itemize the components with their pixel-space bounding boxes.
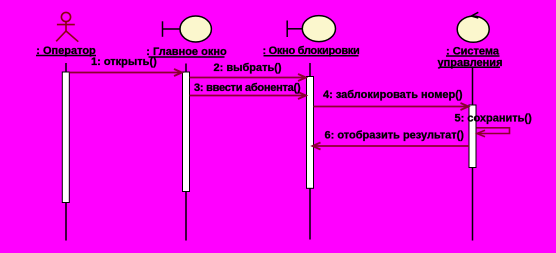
message 3 ввести абонента bbox=[190, 92, 307, 99]
lifeline Окно блокировки bbox=[309, 63, 311, 77]
activation bar Оператор bbox=[62, 72, 69, 203]
svg-text:1: открыть(): 1: открыть() bbox=[91, 56, 157, 68]
activation bar Система управления bbox=[469, 105, 476, 168]
svg-text:3: ввести абонента(): 3: ввести абонента() bbox=[194, 82, 301, 94]
message 5 сохранить self-call bbox=[476, 128, 509, 137]
lifeline Оператор bbox=[65, 63, 67, 72]
message 2 выбрать bbox=[190, 74, 307, 81]
message 1 открыть bbox=[69, 69, 182, 76]
boundary icon Главное окно bbox=[163, 16, 212, 42]
activation bar Главное окно bbox=[183, 72, 190, 192]
svg-text:2: выбрать(): 2: выбрать() bbox=[214, 62, 282, 74]
lifeline Главное окно bbox=[185, 64, 187, 73]
svg-text:6: отобразить результат(): 6: отобразить результат() bbox=[325, 130, 465, 142]
message 4 заблокировать номер bbox=[314, 103, 469, 110]
activation bar Окно блокировки bbox=[307, 77, 314, 189]
lifeline Система управления bbox=[472, 68, 474, 105]
control icon Система управления bbox=[457, 12, 489, 42]
svg-text:5: сохранить(): 5: сохранить() bbox=[455, 112, 533, 124]
actor Оператор bbox=[56, 12, 78, 41]
message 6 отобразить результат bbox=[313, 143, 470, 150]
boundary icon Окно блокировки bbox=[287, 16, 335, 42]
svg-text:4: заблокировать номер(): 4: заблокировать номер() bbox=[323, 89, 463, 101]
